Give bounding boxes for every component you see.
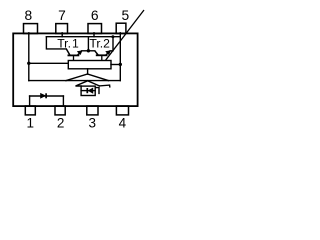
svg-text:7: 7 bbox=[58, 8, 66, 23]
diode bump wire bbox=[30, 95, 64, 97]
wire pin5 riser bbox=[119, 33, 121, 81]
shallow roof left slant bbox=[76, 81, 88, 86]
wire node drop to Tr.2 emitter bbox=[110, 37, 113, 51]
diode D2 (LED chip) bbox=[87, 88, 93, 93]
package outline bbox=[13, 33, 137, 106]
Tr.1 base bar bbox=[68, 54, 80, 56]
Tr.2 emitter arrow bbox=[106, 51, 111, 55]
svg-text:2: 2 bbox=[57, 115, 65, 130]
pin 4 box bbox=[116, 106, 128, 115]
wire center divider to emitter bus bbox=[87, 37, 89, 51]
wire left y63 to big box bbox=[29, 62, 69, 64]
Tr.1 base lead bbox=[73, 55, 75, 60]
junction dot pin8/left bbox=[27, 62, 30, 65]
triangle lens left slant bbox=[66, 74, 88, 81]
svg-text:Tr.2: Tr.2 bbox=[89, 36, 110, 50]
pin 2 box bbox=[55, 106, 65, 115]
pin 6 box bbox=[88, 24, 102, 34]
svg-text:5: 5 bbox=[122, 8, 130, 23]
Tr.2 emitter arm bbox=[106, 51, 110, 55]
LED stub right bbox=[95, 88, 99, 94]
svg-text:3: 3 bbox=[89, 115, 97, 130]
wire main horizontal y80.6 bbox=[29, 80, 121, 82]
junction dot node 113 top bbox=[111, 35, 114, 38]
Tr.1 collector arm bbox=[67, 49, 71, 55]
svg-text:8: 8 bbox=[24, 8, 32, 23]
junction dot pin5 riser bbox=[119, 63, 122, 66]
wire pin2 riser bbox=[62, 96, 64, 106]
junction dot emitter bus bbox=[87, 49, 90, 52]
Tr.2 base bar bbox=[96, 54, 108, 56]
wire pin7 riser bbox=[61, 33, 63, 37]
wire pin8 riser bbox=[28, 33, 30, 81]
big box (chip) bbox=[68, 61, 111, 69]
pin 7 box bbox=[56, 24, 68, 34]
wire apex stub bbox=[87, 69, 89, 74]
Tr.1 emitter arrow bbox=[77, 51, 82, 55]
wire H1 top horizontal bbox=[46, 36, 120, 38]
transistor Tr.2 bbox=[95, 51, 111, 61]
pin 1 box bbox=[25, 106, 35, 115]
light arrow diagonal bbox=[106, 10, 144, 60]
Tr.2 collector arm bbox=[95, 51, 98, 55]
wire emitter bus bbox=[82, 50, 95, 52]
shallow roof right slant bbox=[88, 81, 100, 86]
svg-text:6: 6 bbox=[91, 8, 99, 23]
transistor Tr.1 bbox=[67, 49, 83, 60]
wire big box right to pin5 riser bbox=[111, 64, 120, 66]
wire pin6 riser bbox=[93, 33, 95, 37]
LED diode wire bbox=[81, 90, 95, 92]
pin 8 box bbox=[24, 24, 38, 34]
diode D1 between pins 1-2 bbox=[41, 93, 47, 98]
wire left L to Tr.1 collector bbox=[46, 37, 66, 49]
roof base extension bbox=[100, 85, 110, 87]
Tr.1 emitter arm bbox=[78, 51, 82, 55]
svg-text:4: 4 bbox=[119, 115, 127, 130]
wire pin1 riser bbox=[29, 96, 31, 106]
svg-text:Tr. 1: Tr. 1 bbox=[57, 36, 79, 50]
pin 5 box bbox=[116, 23, 126, 33]
svg-text:1: 1 bbox=[27, 115, 35, 130]
Tr.2 base lead bbox=[101, 55, 103, 60]
pin 3 box bbox=[87, 106, 98, 115]
triangle lens right slant bbox=[88, 74, 109, 81]
LED chip box bbox=[81, 86, 95, 95]
